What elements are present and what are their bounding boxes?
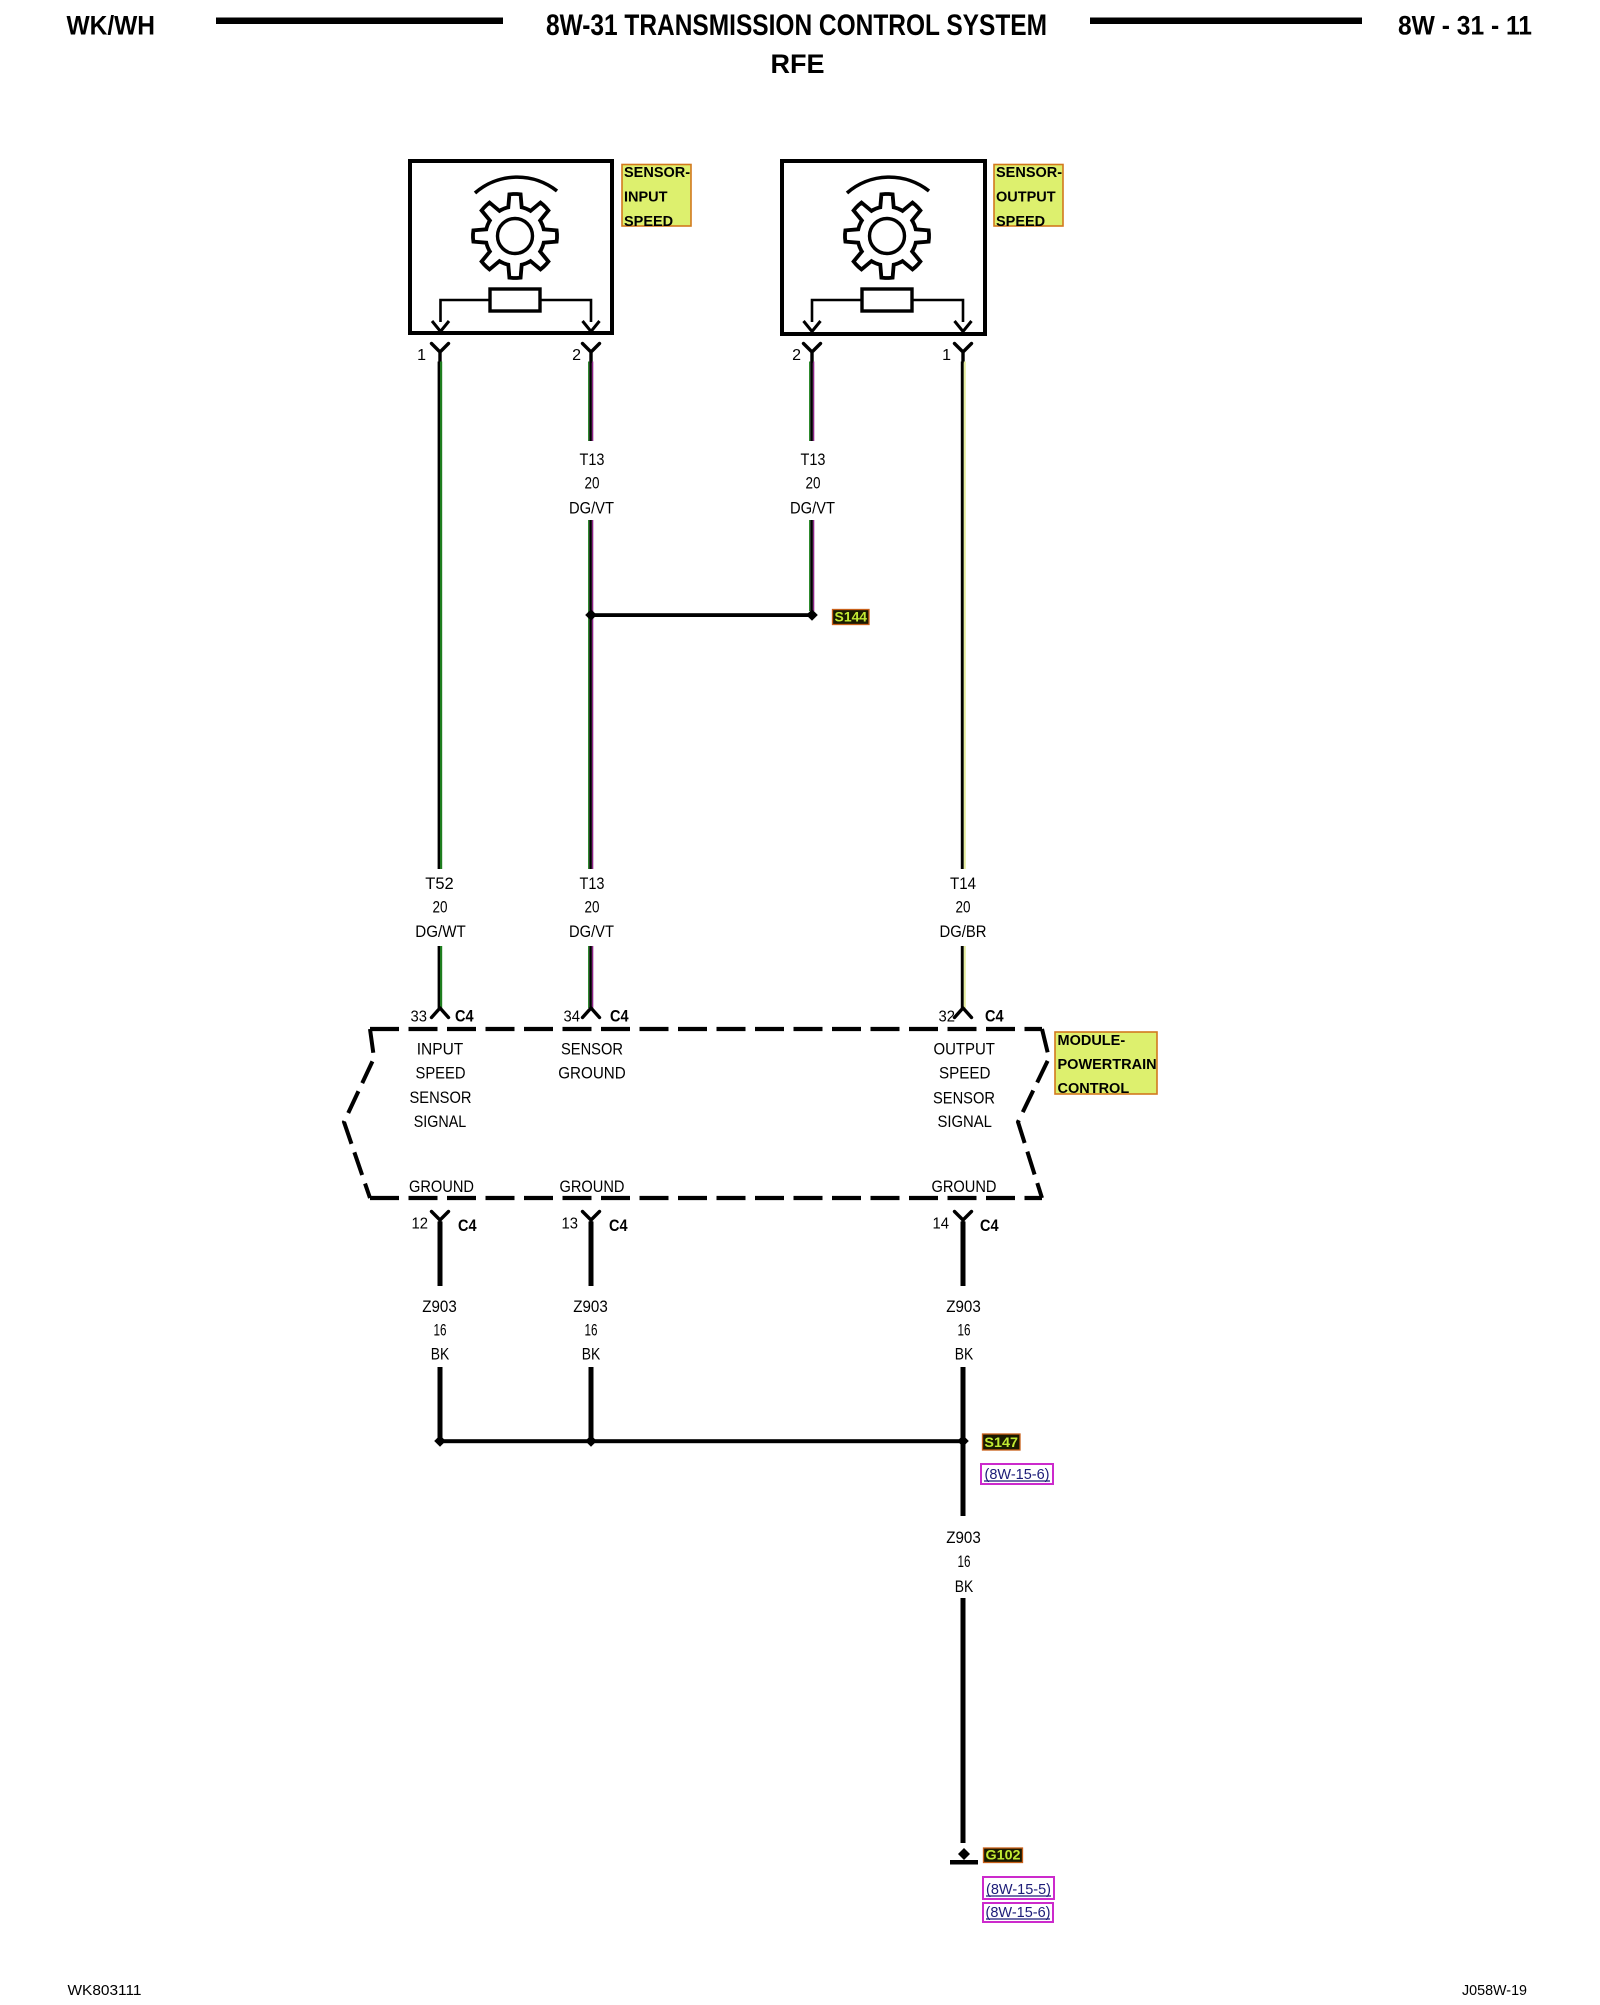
output sensor gear icon (845, 194, 929, 278)
input sensor pin 1 number (417, 347, 426, 364)
svg-text:SIGNAL: SIGNAL (414, 1112, 467, 1131)
svg-text:T52: T52 (425, 874, 454, 893)
wire T52 DG/WT lower segment (438, 946, 443, 1008)
svg-text:GROUND: GROUND (932, 1177, 997, 1196)
svg-text:14: 14 (933, 1216, 950, 1233)
input sensor right lead wire (540, 300, 591, 322)
ground G102 symbol bar (950, 1860, 978, 1865)
splice S144 right junction dot (806, 609, 818, 621)
svg-text:G102: G102 (986, 1847, 1021, 1863)
svg-text:SENSOR: SENSOR (933, 1089, 995, 1108)
svg-text:GROUND: GROUND (558, 1064, 626, 1083)
svg-text:16: 16 (958, 1321, 971, 1340)
svg-text:DG/VT: DG/VT (790, 499, 835, 518)
svg-text:DG/BR: DG/BR (940, 922, 987, 941)
sensor box: input speed sensor outline (410, 161, 612, 333)
PCM pin 32 connector (955, 1008, 972, 1018)
svg-text:20: 20 (585, 474, 600, 493)
input sensor pin 2 number (572, 347, 581, 364)
wire Z903 BK segment (pin 12 upper) (438, 1222, 443, 1287)
svg-text:BK: BK (582, 1345, 601, 1364)
input sensor pin 1 connector (432, 344, 449, 362)
svg-text:S147: S147 (984, 1434, 1018, 1450)
splice S144 left junction dot (585, 609, 597, 621)
header rule right (1090, 18, 1362, 25)
svg-text:WK/WH: WK/WH (67, 11, 156, 41)
PCM pin 14 connector (955, 1212, 972, 1230)
PCM pin 14 connector name C4 (980, 1216, 999, 1235)
svg-text:SENSOR-: SENSOR- (996, 165, 1062, 181)
header rule left (216, 18, 503, 25)
PCM pin 34 number (564, 1009, 581, 1026)
input sensor left lead wire (441, 300, 491, 322)
svg-text:8W-31 TRANSMISSION CONTROL SYS: 8W-31 TRANSMISSION CONTROL SYSTEM (546, 9, 1047, 42)
svg-text:SPEED: SPEED (939, 1064, 991, 1083)
svg-text:2: 2 (792, 347, 801, 364)
splice S147 junction dot right (957, 1435, 969, 1447)
svg-text:C4: C4 (455, 1007, 474, 1026)
wire T52 DG/WT upper segment (input pin 1) (438, 362, 443, 870)
PCM module box right break line (1018, 1029, 1049, 1198)
svg-text:13: 13 (562, 1216, 579, 1233)
wire T14 DG/BR lower segment (961, 946, 966, 1008)
svg-text:C4: C4 (458, 1216, 477, 1235)
svg-text:8W - 31 - 11: 8W - 31 - 11 (1398, 11, 1532, 41)
PCM pin 12 function label GROUND (409, 1177, 474, 1196)
svg-text:34: 34 (564, 1009, 581, 1026)
svg-text:POWERTRAIN: POWERTRAIN (1058, 1057, 1157, 1073)
svg-text:C4: C4 (980, 1216, 999, 1235)
PCM pin 13 function label GROUND (560, 1177, 625, 1196)
PCM module box top edge (370, 1027, 1042, 1031)
svg-text:T13: T13 (801, 450, 826, 469)
subtitle: RFE (771, 49, 825, 79)
wire Z903 BK segment (pin 12 lower) (438, 1367, 443, 1441)
wire T13 DG/VT segment above label (input pin 2) (588, 362, 593, 442)
svg-text:Z903: Z903 (946, 1297, 981, 1316)
sensor box: output speed sensor outline (782, 161, 985, 334)
svg-text:32: 32 (939, 1009, 956, 1026)
svg-text:OUTPUT: OUTPUT (996, 190, 1056, 206)
footer right: J058W-19 (1462, 1982, 1527, 1999)
svg-text:C4: C4 (985, 1007, 1004, 1026)
svg-text:BK: BK (955, 1577, 974, 1596)
input sensor gear icon (473, 194, 557, 278)
svg-text:BK: BK (431, 1345, 450, 1364)
output sensor pin 1 connector (955, 344, 972, 362)
wire label T13 20 DG/VT (center) (569, 874, 614, 941)
page title left: WK/WH (67, 11, 156, 41)
wire Z903 BK segment (pin 13 lower) (589, 1367, 594, 1441)
svg-text:20: 20 (585, 898, 600, 917)
label: SENSOR-INPUT SPEED (622, 165, 691, 231)
wire Z903 BK segment to ground (961, 1598, 966, 1843)
svg-text:SIGNAL: SIGNAL (937, 1112, 992, 1131)
svg-text:SPEED: SPEED (996, 214, 1045, 230)
PCM module box left break line (344, 1029, 374, 1198)
wire T13 DG/VT segment above label (output pin 2) (809, 362, 814, 442)
PCM pin 12 number (412, 1216, 429, 1233)
svg-text:Z903: Z903 (422, 1297, 457, 1316)
svg-text:16: 16 (434, 1321, 447, 1340)
svg-text:SENSOR: SENSOR (561, 1040, 623, 1059)
wire T14 DG/BR upper segment (output pin 1) (961, 362, 966, 870)
label: SENSOR-OUTPUT SPEED (994, 165, 1063, 231)
label: splice S144 (833, 609, 870, 625)
svg-text:DG/WT: DG/WT (415, 922, 466, 941)
svg-text:WK803111: WK803111 (68, 1982, 142, 1999)
label: MODULE-POWERTRAIN CONTROL (1055, 1032, 1157, 1097)
svg-text:SENSOR: SENSOR (410, 1088, 472, 1107)
svg-text:12: 12 (412, 1216, 429, 1233)
wire label T13 20 DG/VT (right) (790, 450, 835, 518)
input sensor left lead arrowhead (432, 321, 449, 332)
svg-text:Z903: Z903 (573, 1297, 608, 1316)
ground G102 junction dot (958, 1848, 970, 1860)
wire Z903 BK segment (pin 13 upper) (589, 1222, 594, 1287)
PCM pin 14 function label GROUND (932, 1177, 997, 1196)
wire label T14 20 DG/BR (940, 874, 987, 941)
input sensor pin 2 connector (583, 344, 600, 362)
splice S147 junction dot left (434, 1435, 446, 1447)
svg-text:INPUT: INPUT (417, 1040, 464, 1059)
svg-text:T14: T14 (950, 874, 976, 893)
footer left: WK803111 (68, 1982, 142, 1999)
svg-text:T13: T13 (580, 874, 605, 893)
PCM pin 33 number (411, 1009, 428, 1026)
PCM pin 12 connector name C4 (458, 1216, 477, 1235)
svg-text:OUTPUT: OUTPUT (933, 1040, 995, 1059)
output sensor pin 1 number (942, 347, 951, 364)
PCM pin 32 function label (933, 1040, 995, 1132)
wire Z903 BK segment (pin 14 lower) (961, 1367, 966, 1441)
wire T13 DG/VT segment into splice (output pin 2) (809, 520, 814, 611)
PCM pin 13 connector name C4 (609, 1216, 628, 1235)
page number: 8W - 31 - 11 (1398, 11, 1532, 41)
PCM module box bottom edge (370, 1196, 1042, 1200)
wire T13 DG/VT lower segment (588, 946, 593, 1008)
wire label Z903 16 BK (right) (946, 1297, 981, 1364)
svg-text:C4: C4 (609, 1216, 628, 1235)
svg-text:33: 33 (411, 1009, 428, 1026)
input sensor arc (475, 177, 557, 193)
splice S144 horizontal wire (591, 613, 812, 617)
wire label T13 20 DG/VT (left) (569, 450, 614, 518)
svg-text:16: 16 (958, 1552, 971, 1571)
svg-text:J058W-19: J058W-19 (1462, 1982, 1527, 1999)
output sensor arc (847, 177, 929, 193)
PCM pin 14 number (933, 1216, 950, 1233)
wire label Z903 16 BK (center) (573, 1297, 608, 1364)
svg-text:BK: BK (955, 1345, 974, 1364)
svg-text:S144: S144 (835, 609, 868, 625)
input sensor resistor element (490, 289, 540, 311)
PCM pin 13 connector (583, 1212, 600, 1230)
label: splice S147 (983, 1434, 1021, 1450)
reference link 8W-15-6 at S147 (981, 1464, 1053, 1484)
PCM pin 12 connector (432, 1212, 449, 1230)
PCM pin 34 connector name C4 (610, 1007, 629, 1026)
output sensor right lead wire (912, 300, 963, 322)
output sensor left lead wire (812, 300, 862, 322)
wire label T52 20 DG/WT (415, 874, 466, 941)
PCM pin 13 number (562, 1216, 579, 1233)
svg-text:20: 20 (806, 474, 821, 493)
PCM pin 32 number (939, 1009, 956, 1026)
svg-text:1: 1 (417, 347, 426, 364)
svg-text:CONTROL: CONTROL (1058, 1081, 1130, 1097)
splice S147 horizontal wire (440, 1439, 963, 1443)
PCM pin 33 connector name C4 (455, 1007, 474, 1026)
svg-text:SENSOR-: SENSOR- (624, 165, 690, 181)
svg-text:20: 20 (433, 898, 448, 917)
PCM pin 33 connector (432, 1008, 449, 1018)
label: ground G102 (984, 1847, 1023, 1863)
wire label Z903 16 BK (bottom) (946, 1528, 981, 1596)
output sensor pin 2 number (792, 347, 801, 364)
svg-text:GROUND: GROUND (409, 1177, 474, 1196)
svg-text:GROUND: GROUND (560, 1177, 625, 1196)
svg-text:SPEED: SPEED (624, 214, 673, 230)
PCM pin 34 function label (558, 1040, 626, 1083)
svg-text:Z903: Z903 (946, 1528, 981, 1547)
reference link 8W-15-6 at G102 (983, 1903, 1053, 1922)
wire Z903 BK segment (pin 14 upper) (961, 1222, 966, 1287)
output sensor right lead arrowhead (955, 321, 972, 332)
output sensor resistor element (862, 289, 912, 311)
splice S147 junction dot center (585, 1435, 597, 1447)
svg-text:DG/VT: DG/VT (569, 499, 614, 518)
svg-text:1: 1 (942, 347, 951, 364)
svg-text:T13: T13 (580, 450, 605, 469)
svg-text:DG/VT: DG/VT (569, 922, 614, 941)
wire T13 DG/VT segment to splice and below (588, 520, 593, 869)
svg-text:C4: C4 (610, 1007, 629, 1026)
PCM pin 32 connector name C4 (985, 1007, 1004, 1026)
PCM pin 34 connector (583, 1008, 600, 1018)
svg-text:INPUT: INPUT (624, 190, 668, 206)
svg-text:20: 20 (956, 898, 971, 917)
svg-text:SPEED: SPEED (416, 1064, 466, 1083)
svg-text:MODULE-: MODULE- (1058, 1033, 1126, 1049)
page title: 8W-31 TRANSMISSION CONTROL SYSTEM (546, 9, 1047, 42)
svg-text:2: 2 (572, 347, 581, 364)
output sensor left lead arrowhead (804, 321, 821, 332)
wire label Z903 16 BK (left) (422, 1297, 457, 1364)
wire Z903 BK segment below S147 (961, 1441, 966, 1516)
output sensor pin 2 connector (804, 344, 821, 362)
svg-text:16: 16 (585, 1321, 598, 1340)
reference link 8W-15-5 at G102 (983, 1877, 1054, 1899)
input sensor right lead arrowhead (583, 321, 600, 332)
PCM pin 33 function label (410, 1040, 472, 1132)
svg-text:RFE: RFE (771, 49, 825, 79)
